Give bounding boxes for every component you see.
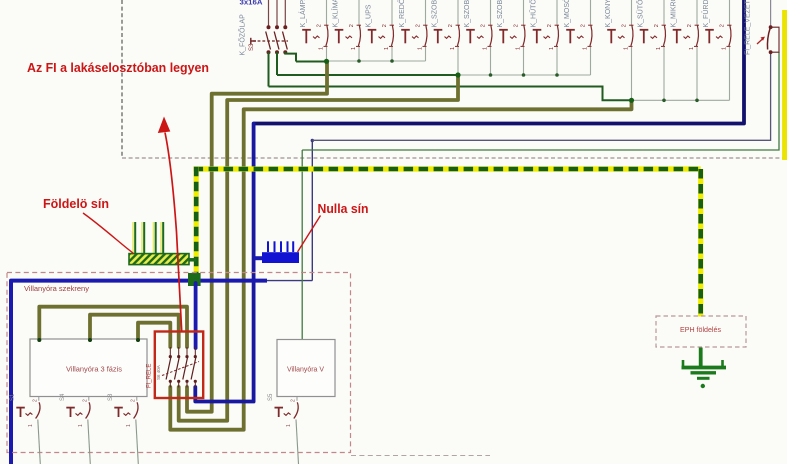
breaker K_MIKRÓ #12	[696, 0, 698, 25]
junction dots bus L2	[489, 73, 493, 77]
bottom breaker S5	[296, 397, 298, 401]
dashed boundary horizontal	[122, 157, 787, 159]
svg-text:Villanyóra V: Villanyóra V	[287, 365, 324, 374]
svg-text:2: 2	[687, 24, 693, 27]
junction L1 big	[324, 59, 329, 64]
EPH ground wire	[699, 348, 703, 367]
svg-text:2: 2	[349, 24, 355, 27]
bus L3 (dark green)	[269, 87, 632, 101]
thin N bus extension	[267, 280, 312, 282]
svg-text:FI_RELE_VEZETÉK: FI_RELE_VEZETÉK	[743, 0, 752, 55]
svg-text:K_REDŐNY: K_REDŐNY	[397, 0, 406, 28]
svg-text:1: 1	[483, 47, 489, 50]
annotation arrow	[165, 133, 182, 332]
svg-text:1: 1	[78, 424, 84, 427]
bus L1 (dark green)	[296, 61, 327, 63]
FI relay box S6	[155, 332, 203, 399]
bus L2 (dark green)	[277, 74, 458, 76]
wire to Villanyora V (green)	[301, 150, 303, 340]
wire meter L3 to FI box	[138, 323, 170, 347]
svg-text:1: 1	[583, 47, 589, 50]
wire phase L1 (olive)	[187, 62, 327, 412]
svg-text:2: 2	[547, 24, 553, 27]
junction L2 big	[455, 72, 460, 77]
svg-text:2: 2	[291, 399, 297, 402]
thin N drop wire	[311, 140, 313, 280]
svg-text:K_HŰTŐ: K_HŰTŐ	[529, 0, 538, 28]
extra dashed segment	[351, 455, 490, 457]
svg-text:K_MIKRÓ: K_MIKRÓ	[669, 0, 678, 28]
breaker K_SZOBA1 #5	[457, 0, 459, 25]
svg-text:2: 2	[317, 24, 323, 27]
junction dots bus L1	[357, 59, 361, 63]
breaker K_KONYHA #10	[631, 0, 633, 25]
breaker K_SZOBA3 #7	[523, 0, 525, 25]
svg-text:1: 1	[689, 47, 695, 50]
navy wire N bus to FI box	[194, 283, 198, 348]
svg-text:Földelö sín: Földelö sín	[43, 196, 109, 211]
EPH box	[656, 316, 746, 347]
wire phase L3 (olive)	[170, 100, 631, 429]
junction L3 big	[629, 98, 634, 103]
wire N from FI relay (navy)	[254, 0, 744, 124]
svg-text:2: 2	[382, 24, 388, 27]
svg-text:S6 40A: S6 40A	[156, 365, 161, 380]
bottom breaker S8	[136, 397, 138, 401]
svg-text:S5: S5	[268, 393, 274, 401]
PE wire drop to ground rail	[194, 167, 199, 274]
svg-text:FI_RELE: FI_RELE	[147, 364, 153, 388]
svg-text:1: 1	[126, 424, 132, 427]
breaker K_UPS #3	[391, 0, 393, 25]
cabinet N bus (blue)	[11, 281, 267, 464]
svg-text:Az FI a lakáselosztóban legyen: Az FI a lakáselosztóban legyen	[27, 60, 209, 75]
svg-text:2: 2	[416, 24, 422, 27]
svg-text:2: 2	[654, 24, 660, 27]
svg-text:K_KLÍMA: K_KLÍMA	[331, 0, 340, 28]
FI relay (top right)	[770, 0, 772, 27]
neutral rail Nulla sin	[267, 241, 269, 252]
svg-text:K_SZOBA1: K_SZOBA1	[432, 0, 439, 28]
svg-text:1: 1	[351, 47, 357, 50]
breaker K_FÜRDŐ #13	[729, 0, 731, 25]
svg-text:1: 1	[319, 47, 325, 50]
breaker K_HŰTŐ #8	[556, 0, 558, 25]
meter box Villanyora 3 fazis	[30, 339, 147, 397]
svg-text:1: 1	[549, 47, 555, 50]
svg-text:2: 2	[514, 24, 520, 27]
meter terminal dots	[37, 338, 41, 342]
PE wire drop to EPH	[698, 169, 703, 317]
bottom breaker S1	[38, 397, 40, 401]
svg-text:1: 1	[624, 47, 630, 50]
svg-text:1: 1	[28, 424, 34, 427]
svg-text:2: 2	[481, 24, 487, 27]
svg-text:Villanyóra 3 fázis: Villanyóra 3 fázis	[66, 365, 122, 374]
PE wire horizontal	[194, 166, 701, 171]
svg-text:K_SÜTŐ: K_SÜTŐ	[636, 0, 645, 28]
breaker K_MOSÓ #9	[590, 0, 592, 25]
wire N vertical to cabinet (navy)	[195, 124, 253, 402]
svg-text:2: 2	[130, 399, 136, 402]
svg-text:K_KONYHA: K_KONYHA	[605, 0, 612, 28]
svg-text:2: 2	[82, 399, 88, 402]
svg-text:Villanyóra szekreny: Villanyóra szekreny	[24, 284, 89, 293]
bottom breaker S4	[88, 397, 90, 401]
svg-text:2: 2	[448, 24, 454, 27]
svg-text:2: 2	[32, 399, 38, 402]
svg-text:1: 1	[722, 47, 728, 50]
wire N stub to neutral rail	[254, 256, 263, 260]
svg-text:K_SZOBA3: K_SZOBA3	[497, 0, 504, 28]
svg-text:1: 1	[384, 47, 390, 50]
svg-text:K_LÁMPA: K_LÁMPA	[298, 0, 307, 28]
svg-text:S4: S4	[60, 393, 66, 401]
svg-text:S8: S8	[108, 393, 114, 401]
svg-text:S3: S3	[249, 43, 255, 51]
breaker K_SZOBA2 #6	[490, 0, 492, 25]
svg-text:K_FŐZŐLAP: K_FŐZŐLAP	[238, 14, 247, 56]
wire phase L2 (olive)	[179, 75, 458, 421]
svg-text:EPH földelés: EPH földelés	[680, 325, 721, 334]
svg-text:K_FÜRDŐ: K_FÜRDŐ	[701, 0, 710, 28]
breaker K_SÜTŐ #11	[663, 0, 665, 25]
earth symbol	[682, 366, 727, 370]
svg-text:1: 1	[286, 424, 292, 427]
breaker K_REDŐNY #4	[425, 0, 427, 25]
breaker K_KLÍMA #2	[358, 0, 360, 25]
cabinet dashed box	[7, 273, 351, 453]
svg-text:2: 2	[622, 24, 628, 27]
wire from FI relay lower pole (grey)	[312, 53, 770, 140]
cropped PE bar at right edge	[782, 10, 787, 160]
svg-text:Nulla sín: Nulla sín	[318, 201, 369, 216]
dashed boundary vertical	[121, 0, 123, 157]
PEN junction square	[188, 273, 201, 286]
svg-text:2: 2	[581, 24, 587, 27]
svg-text:1: 1	[516, 47, 522, 50]
wire meter L1 to FI box	[39, 307, 187, 347]
bus L3 thin extension	[632, 99, 730, 101]
svg-text:1: 1	[450, 47, 456, 50]
breaker K_LÁMPA #1	[326, 0, 328, 25]
bus L2 thin extension	[458, 74, 591, 76]
bus L1 thin extension	[327, 60, 426, 62]
svg-text:1: 1	[656, 47, 662, 50]
svg-text:3x16A: 3x16A	[240, 0, 263, 6]
svg-text:1: 1	[418, 47, 424, 50]
junction dots bus L3	[662, 99, 666, 103]
svg-text:K_UPS: K_UPS	[366, 4, 373, 27]
3-pole breaker K_FOZOLAP S3	[268, 0, 270, 27]
wire from FI relay right pole (green)	[302, 52, 779, 150]
svg-text:2: 2	[720, 24, 726, 27]
svg-text:K_SZOBA2: K_SZOBA2	[464, 0, 471, 28]
wire meter L2 to FI box	[90, 315, 179, 347]
meter box Villanyora V	[277, 340, 335, 397]
svg-text:K_MOSÓ: K_MOSÓ	[562, 0, 571, 28]
svg-text:S1: S1	[10, 393, 16, 401]
